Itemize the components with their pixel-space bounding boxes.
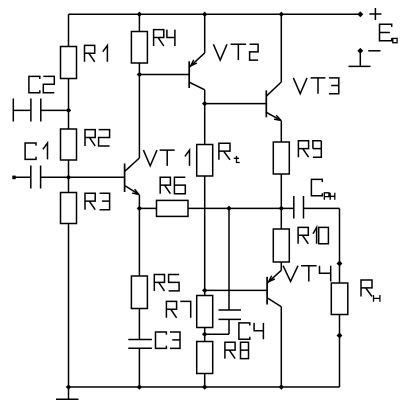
terminal -E: [358, 48, 363, 53]
plus sign: [369, 8, 381, 20]
junction bottom rail VT4: [279, 385, 283, 389]
wire Rn to bottom rail: [339, 315, 341, 388]
junction VT1 base node: [66, 175, 70, 179]
wire R1 top lead: [68, 14, 70, 46]
terminal output top: [337, 261, 342, 266]
resistor R8: [197, 342, 213, 374]
wire R9 to mid node: [280, 174, 282, 229]
junction top rail R4: [137, 12, 141, 16]
label R1: [85, 45, 108, 61]
label R6: [160, 177, 185, 193]
junction top rail VT2: [203, 12, 207, 16]
capacitor C1: [14, 166, 69, 189]
wire R3 to bottom rail: [68, 224, 70, 388]
capacitor C2: [13, 99, 68, 122]
resistor R10: [273, 229, 289, 262]
label R4: [154, 30, 175, 46]
transistor VT4: [267, 262, 281, 387]
wire R7 to R8: [204, 328, 206, 342]
transistor VT2: [189, 14, 205, 103]
label R10: [298, 227, 328, 243]
wire VT1 emitter to R6: [139, 207, 156, 209]
wire R4 top lead: [138, 14, 140, 31]
resistor Rn: [331, 283, 348, 315]
minus sign: [368, 50, 380, 52]
label VT2: [213, 44, 258, 60]
resistor R2: [61, 129, 77, 160]
junction top rail VT3: [279, 12, 283, 16]
junction R9-R10 node: [279, 206, 283, 210]
capacitor Cph: [294, 196, 340, 219]
junction C4 node: [227, 206, 231, 210]
wire R6 to Cph: [188, 207, 294, 209]
label VT4: [283, 266, 331, 282]
junction VT2 collector node: [203, 101, 207, 105]
resistor Rt: [197, 145, 213, 177]
label R3: [85, 193, 110, 209]
label R9: [298, 141, 321, 157]
junction VT1 emitter node: [137, 206, 141, 210]
ground (bottom left): [56, 387, 79, 399]
terminal input: [12, 176, 15, 180]
resistor R3: [61, 193, 77, 224]
junction bottom rail C3: [137, 385, 141, 389]
junction R7-R8 node: [203, 332, 207, 336]
wire R4 to VT1 collector: [138, 63, 140, 158]
resistor R6: [157, 200, 189, 216]
label C3: [156, 332, 181, 348]
wire VT2 base: [139, 74, 188, 76]
label VT1: [143, 150, 189, 166]
wire top rail (+E): [69, 13, 361, 15]
label R7: [166, 301, 190, 317]
wire R5 to C3: [138, 309, 140, 340]
transistor VT3: [266, 14, 281, 142]
resistor R7: [197, 296, 213, 328]
wire R8 to bottom rail: [204, 374, 206, 388]
junction R7 top node: [203, 288, 207, 292]
label Rn: [361, 280, 380, 302]
label E with subscript o: [380, 24, 398, 42]
wire R1-R2: [68, 79, 70, 130]
label R2: [85, 130, 110, 146]
wire bottom rail: [69, 386, 340, 388]
resistor R9: [273, 142, 289, 174]
label R5: [154, 275, 179, 291]
junction C2 node: [66, 108, 70, 112]
resistor R1: [61, 47, 77, 79]
transistor VT1: [69, 158, 140, 208]
capacitor C4: [205, 208, 241, 334]
wire R2-R3: [68, 160, 70, 193]
junction bottom-left: [66, 385, 70, 389]
resistor R4: [131, 32, 147, 64]
terminal output bottom: [337, 333, 342, 338]
label C4: [239, 323, 264, 339]
label Cph: [311, 179, 334, 199]
resistor R5: [131, 276, 147, 309]
label VT3: [293, 78, 338, 94]
wire VT3 base: [205, 103, 266, 105]
wire Rt top lead: [204, 104, 206, 145]
capacitor C3: [128, 340, 152, 388]
wire Cph to Rn: [339, 208, 341, 283]
ground (supply minus): [349, 51, 371, 67]
wire VT1 emitter to R5: [138, 208, 140, 276]
label C2: [29, 76, 54, 92]
label Rt: [219, 143, 240, 162]
wire Rt to R7 node: [204, 176, 206, 296]
junction VT2 base node: [137, 72, 141, 76]
label C1: [25, 143, 47, 159]
terminal +E: [358, 12, 363, 17]
junction bottom rail R8: [203, 385, 207, 389]
label R8: [225, 342, 249, 358]
wire VT4 base: [205, 289, 267, 291]
